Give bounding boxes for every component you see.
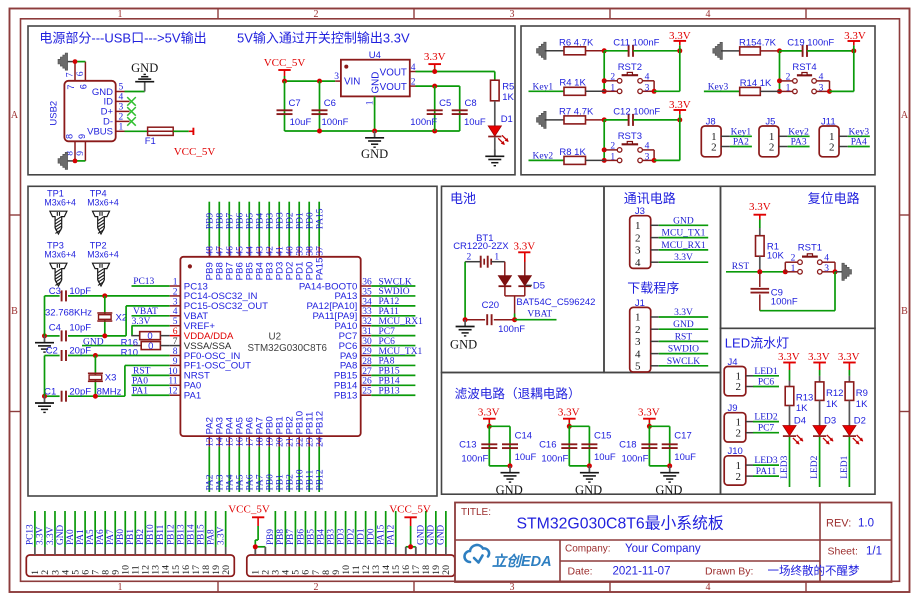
wire/net PD2 top: [288, 202, 290, 247]
wire C18 bottom: [649, 465, 669, 467]
mcu pin 6 VDDA/DDA: [170, 335, 181, 337]
svg-text:26: 26: [362, 377, 372, 387]
no-connect pin3 D+: [125, 110, 130, 112]
svg-text:GND: GND: [427, 525, 437, 545]
junction C17 bottom: [667, 463, 672, 468]
svg-text:100nF: 100nF: [771, 297, 798, 308]
chassis ground reset: [835, 271, 843, 273]
net label PA3: [788, 146, 810, 148]
net label PA5 P1: [94, 511, 96, 547]
svg-text:PD2: PD2: [286, 212, 296, 229]
svg-text:PB5: PB5: [306, 529, 316, 545]
mcu pin 19 PB0: [268, 436, 270, 447]
svg-text:3: 3: [173, 297, 178, 307]
svg-text:C15: C15: [594, 431, 611, 442]
svg-text:3.3V: 3.3V: [46, 526, 56, 545]
net label GND P2: [445, 511, 447, 547]
net label LED2: [753, 421, 779, 423]
net label MCU_TX1: [659, 237, 709, 239]
USB2 pin 4 ID: [116, 100, 125, 102]
svg-text:PB13: PB13: [379, 387, 400, 397]
junction C1 left: [42, 394, 47, 399]
svg-text:A: A: [901, 110, 909, 121]
svg-text:STM32G030C8T6: STM32G030C8T6: [248, 343, 328, 354]
svg-text:PA15: PA15: [315, 258, 326, 281]
svg-text:41: 41: [276, 246, 286, 256]
svg-text:R154.7K: R154.7K: [739, 38, 777, 49]
mcu pin 3 PC15-OSC32_OUT: [170, 305, 181, 307]
svg-text:U4: U4: [369, 50, 381, 61]
svg-text:3.3V: 3.3V: [674, 253, 693, 263]
net label MCU_RX1: [659, 249, 709, 251]
wire gnd rail: [285, 130, 460, 132]
svg-text:4: 4: [645, 72, 650, 82]
svg-text:14: 14: [216, 437, 226, 447]
wire button to rail RST3: [654, 159, 680, 161]
capacitor C16: [568, 426, 570, 466]
svg-text:6: 6: [78, 84, 88, 89]
svg-text:42: 42: [266, 246, 276, 256]
svg-text:VBAT: VBAT: [527, 309, 552, 319]
svg-text:34: 34: [362, 297, 372, 307]
net label PC6: [371, 345, 415, 347]
net label LED1 wire: [848, 437, 850, 487]
net label 3.3V P1: [44, 511, 46, 547]
fuse F1: [148, 127, 174, 135]
junction P2 pin1: [253, 544, 258, 549]
capacitor C8: [459, 86, 461, 131]
svg-text:M3x6+4: M3x6+4: [44, 198, 76, 208]
svg-text:D5: D5: [533, 281, 545, 292]
wire/net PA4 bottom: [228, 447, 230, 492]
svg-text:20: 20: [276, 437, 286, 447]
mcu U2 body: [180, 257, 360, 436]
svg-text:40: 40: [286, 246, 296, 256]
svg-text:C2: C2: [46, 345, 58, 356]
mcu pin1 mark: [188, 264, 192, 268]
svg-text:16: 16: [236, 437, 246, 447]
svg-text:3: 3: [645, 83, 650, 93]
svg-text:43: 43: [256, 246, 266, 256]
svg-text:PA6: PA6: [246, 474, 256, 490]
net label PB6 P2: [304, 511, 306, 547]
svg-text:9: 9: [173, 357, 178, 367]
net label PC13 P1: [34, 511, 36, 547]
svg-text:MCU_RX1: MCU_RX1: [379, 317, 424, 327]
svg-text:100nF: 100nF: [322, 117, 349, 128]
net label PA12: [371, 305, 415, 307]
net label PA12 P2: [395, 511, 397, 547]
section box filter: [442, 373, 721, 495]
junction RST3 pin1: [602, 158, 607, 163]
svg-text:PB14: PB14: [379, 377, 400, 387]
svg-text:VCC_5V: VCC_5V: [264, 57, 306, 69]
mcu pin 44 PB5: [248, 246, 250, 256]
junction C14 bottom: [508, 463, 513, 468]
junction RST3 pin3: [652, 158, 657, 163]
P1 pin 2 3.3V: [44, 547, 46, 555]
P2 pin 1: [254, 547, 256, 555]
svg-text:48: 48: [206, 246, 216, 256]
net label LED3: [753, 464, 779, 466]
svg-text:电池: 电池: [450, 191, 476, 206]
net label SWCLK: [659, 365, 709, 367]
svg-text:8MHz: 8MHz: [97, 387, 122, 398]
svg-text:1: 1: [118, 9, 123, 20]
svg-text:SWDIO: SWDIO: [668, 345, 699, 355]
mcu pin 34 PA12[PA10]: [361, 305, 372, 307]
P1 pin 18 PB15: [205, 547, 207, 555]
svg-text:PB11: PB11: [156, 524, 166, 545]
svg-text:PB6: PB6: [236, 213, 246, 230]
net label PB15: [371, 374, 415, 376]
junction C12: [677, 117, 682, 122]
svg-text:21: 21: [286, 437, 296, 447]
svg-text:GND: GND: [655, 483, 682, 497]
mcu pin 27 PB15: [361, 374, 372, 376]
mcu pin 23 PB11: [308, 436, 310, 447]
svg-text:3.3V: 3.3V: [513, 241, 535, 253]
net label PD3 P2: [345, 511, 347, 547]
svg-text:1: 1: [173, 277, 178, 287]
svg-text:PA5: PA5: [86, 529, 96, 545]
svg-text:PA8: PA8: [206, 529, 216, 545]
P2 pin 11: [355, 547, 357, 555]
net label PB9 P2: [274, 511, 276, 547]
resistor R5: [494, 72, 496, 81]
svg-text:PA7: PA7: [106, 529, 116, 545]
svg-text:J10: J10: [728, 446, 743, 457]
svg-text:6: 6: [76, 71, 86, 76]
svg-text:10pF: 10pF: [69, 323, 91, 334]
svg-text:10uF: 10uF: [464, 117, 486, 128]
wire/net PA6 bottom: [248, 447, 250, 492]
section box MCU: [28, 186, 437, 496]
USB2 pin 9: [84, 141, 86, 161]
svg-text:PB15: PB15: [379, 367, 400, 377]
svg-text:3.3V: 3.3V: [844, 30, 866, 42]
chassis ground bottom: [58, 152, 68, 169]
svg-text:PB3: PB3: [326, 529, 336, 545]
svg-text:3.3V: 3.3V: [638, 406, 660, 418]
USB2 pin 8: [74, 141, 76, 161]
svg-text:Your Company: Your Company: [625, 543, 701, 555]
svg-text:1: 1: [610, 152, 615, 162]
wire P2 pin16-17: [406, 546, 416, 548]
connector USB2 body: [64, 81, 115, 142]
svg-text:一场终散的不醒梦: 一场终散的不醒梦: [768, 564, 860, 578]
svg-text:GND: GND: [673, 216, 694, 226]
wire C16 bottom: [569, 465, 589, 467]
net label LED3 wire: [789, 437, 791, 487]
USB2 pin 3 D+: [116, 110, 125, 112]
svg-text:RST4: RST4: [792, 62, 816, 73]
wire key column RST3: [603, 120, 605, 160]
svg-text:5: 5: [119, 83, 124, 93]
mcu pin 36 PA14-BOOT0: [361, 285, 372, 287]
svg-text:D4: D4: [794, 416, 806, 427]
P2 pin 14: [385, 547, 387, 555]
svg-text:PB9: PB9: [266, 529, 276, 545]
svg-text:Drawn By:: Drawn By:: [705, 566, 753, 578]
svg-text:45: 45: [236, 246, 246, 256]
junction c5 bottom: [432, 129, 437, 134]
svg-text:4: 4: [706, 582, 711, 593]
svg-text:12: 12: [168, 387, 178, 397]
section box power/USB: [28, 26, 515, 175]
net label MCU_RX1: [371, 325, 415, 327]
svg-text:C6: C6: [324, 98, 336, 109]
mcu pin 13 PA2: [208, 436, 210, 447]
svg-text:GND: GND: [56, 525, 66, 545]
svg-text:17: 17: [246, 437, 256, 447]
svg-text:3.3V: 3.3V: [424, 51, 446, 63]
junction C1/X3: [93, 394, 98, 399]
section box battery: [442, 186, 605, 372]
svg-text:10uF: 10uF: [674, 452, 696, 463]
svg-text:4: 4: [645, 142, 650, 152]
net label GND P2: [425, 511, 427, 547]
wire/net PB11 bottom: [308, 447, 310, 492]
capacitor C6: [319, 81, 321, 131]
svg-text:MCU_TX1: MCU_TX1: [662, 229, 706, 239]
junction C4/X2: [102, 333, 107, 338]
P2 pin 4: [284, 547, 286, 555]
led D4: [789, 406, 791, 426]
P1 pin 5 PA0: [74, 547, 76, 555]
svg-text:1K: 1K: [502, 92, 514, 103]
net label PC6: [753, 386, 779, 388]
svg-text:19: 19: [266, 437, 276, 447]
wire/net PA3 bottom: [218, 447, 220, 492]
svg-text:PA0: PA0: [66, 529, 76, 545]
svg-text:PB11: PB11: [306, 469, 316, 490]
net label SWDIO: [371, 295, 415, 297]
net label PA8 P1: [215, 511, 217, 547]
junction RST2 pin2: [602, 78, 607, 83]
svg-text:10K: 10K: [767, 251, 785, 262]
svg-text:33: 33: [362, 307, 372, 317]
svg-text:15: 15: [226, 437, 236, 447]
svg-text:R10: R10: [121, 348, 138, 359]
svg-text:3: 3: [824, 264, 829, 274]
svg-text:Company:: Company:: [565, 544, 611, 555]
junction RST4 pin1: [777, 89, 782, 94]
net label PB5 P2: [314, 511, 316, 547]
svg-text:C4: C4: [49, 323, 61, 334]
svg-text:PD2: PD2: [346, 528, 356, 545]
net label PA15 P2: [385, 511, 387, 547]
wire/net PB10 bottom: [298, 447, 300, 492]
net label PB15 P1: [205, 511, 207, 547]
wire pin3 osc32_out: [126, 305, 170, 307]
svg-text:1: 1: [635, 312, 641, 324]
resistor R14: [740, 87, 761, 95]
svg-text:1: 1: [610, 83, 615, 93]
svg-text:PB7: PB7: [286, 529, 296, 545]
svg-text:C19 100nF: C19 100nF: [787, 38, 834, 49]
P1 pin 4 GND: [64, 547, 66, 555]
svg-text:REV:: REV:: [826, 518, 851, 530]
svg-text:GND: GND: [496, 483, 523, 497]
svg-text:PA12: PA12: [379, 297, 400, 307]
net label PB4 P2: [325, 511, 327, 547]
svg-text:SWDIO: SWDIO: [379, 287, 410, 297]
svg-text:2: 2: [635, 324, 641, 336]
svg-text:PB3: PB3: [266, 213, 276, 230]
svg-text:PB7: PB7: [226, 213, 236, 230]
frame row ticks: [10, 214, 21, 216]
mcu pin 29 PA9: [361, 355, 372, 357]
P2 pin 16: [405, 547, 407, 555]
U4 pin 3 VIN: [335, 80, 341, 82]
net label PA7 P1: [114, 511, 116, 547]
svg-text:PC7: PC7: [379, 327, 396, 337]
wire/net PB1 bottom: [278, 447, 280, 492]
wire/net PA15 top: [318, 202, 320, 247]
connector J11: [819, 126, 839, 157]
svg-text:CR1220-2ZX: CR1220-2ZX: [453, 241, 509, 252]
net label RST: [659, 340, 709, 342]
ground symbol regulator: [374, 131, 376, 138]
junction RST2 pin1: [602, 89, 607, 94]
mcu pin 42 PB3: [268, 246, 270, 256]
svg-text:C16: C16: [539, 440, 556, 451]
svg-text:R9: R9: [856, 388, 868, 399]
svg-text:PA3: PA3: [216, 474, 226, 490]
mcu pin 46 PB7: [228, 246, 230, 256]
net label PA11: [371, 315, 415, 317]
svg-text:2: 2: [711, 141, 717, 153]
svg-text:PA11: PA11: [379, 307, 400, 317]
svg-text:10uF: 10uF: [290, 117, 312, 128]
P2 pin 12: [365, 547, 367, 555]
net label SWDIO: [659, 353, 709, 355]
junction C16 top: [567, 424, 572, 429]
ground symbol battery: [464, 320, 466, 327]
wire vout4: [416, 71, 495, 73]
svg-text:STM32G030C8T6最小系统板: STM32G030C8T6最小系统板: [517, 515, 724, 533]
svg-text:RST: RST: [675, 332, 693, 342]
junction RST3 pin2: [602, 147, 607, 152]
svg-text:R13: R13: [796, 392, 813, 403]
P1 pin 16 PB13: [185, 547, 187, 555]
junction c5 top: [432, 84, 437, 89]
mcu pin 11 PA0: [170, 384, 181, 386]
svg-text:J5: J5: [765, 117, 775, 128]
P1 pin 20 3.3V: [225, 547, 227, 555]
connector J8: [701, 126, 721, 157]
wire pin9 osc_out: [125, 364, 170, 366]
svg-text:D2: D2: [854, 416, 866, 427]
net label PB2 P1: [144, 511, 146, 547]
svg-text:11: 11: [168, 377, 177, 387]
net label Key1: [730, 135, 752, 137]
svg-text:F1: F1: [145, 136, 156, 147]
junction RST4 pin2: [777, 78, 782, 83]
svg-text:PD3: PD3: [276, 212, 286, 229]
chassis ground R15: [713, 42, 723, 59]
net label PB12 P1: [174, 511, 176, 547]
svg-text:2: 2: [119, 113, 124, 123]
ground symbol D1: [494, 137, 496, 156]
svg-text:1K: 1K: [826, 399, 838, 410]
battery BT1 symbol: [480, 256, 482, 268]
svg-text:31: 31: [362, 327, 372, 337]
svg-text:C18: C18: [619, 440, 636, 451]
svg-text:PA12: PA12: [387, 524, 397, 545]
svg-text:PD1: PD1: [296, 212, 306, 229]
net label PB8 P2: [284, 511, 286, 547]
svg-text:PB12: PB12: [166, 524, 176, 545]
svg-text:GND: GND: [437, 525, 447, 545]
net label MCU_TX1: [371, 355, 415, 357]
svg-text:4: 4: [173, 307, 178, 317]
svg-text:32.768KHz: 32.768KHz: [45, 308, 92, 319]
mcu pin 15 PA4: [228, 436, 230, 447]
svg-text:100nF: 100nF: [410, 117, 437, 128]
USB2 pin 2 D-: [116, 120, 125, 122]
svg-text:1/1: 1/1: [866, 546, 882, 558]
svg-text:37: 37: [316, 246, 326, 256]
svg-text:7: 7: [173, 337, 178, 347]
svg-text:22: 22: [296, 437, 306, 447]
svg-text:3: 3: [334, 72, 339, 82]
svg-text:滤波电路（退耦电路）: 滤波电路（退耦电路）: [455, 386, 581, 401]
wire/net PA5 bottom: [238, 447, 240, 492]
mcu pin 31 PC7: [361, 335, 372, 337]
wire GND pin5: [125, 91, 145, 93]
wire/net PB0 bottom: [268, 447, 270, 492]
mcu pin 28 PA8: [361, 364, 372, 366]
capacitor C18: [648, 426, 650, 466]
mcu pin 8 PF0-OSC_IN: [170, 355, 181, 357]
svg-text:MCU_RX1: MCU_RX1: [661, 241, 706, 251]
net label VBAT: [515, 319, 557, 321]
junction RST4 pin3: [827, 89, 832, 94]
P1 pin 3 3.3V: [54, 547, 56, 555]
svg-text:LED3: LED3: [780, 455, 790, 478]
svg-text:2: 2: [466, 252, 471, 262]
svg-text:PB15: PB15: [196, 524, 206, 545]
led D2: [848, 400, 850, 425]
svg-text:PB6: PB6: [296, 529, 306, 545]
mcu pin 20 PB1: [278, 436, 280, 447]
junction c6 top: [317, 79, 322, 84]
svg-text:U2: U2: [269, 332, 282, 343]
svg-text:PA15: PA15: [376, 524, 386, 545]
wire vout2: [416, 85, 460, 87]
svg-text:C20: C20: [482, 300, 499, 311]
capacitor C19: [780, 50, 803, 52]
svg-text:100nF: 100nF: [621, 453, 648, 464]
mcu pin 25 PB13: [361, 394, 372, 396]
capacitor C2: [45, 355, 60, 357]
crystal X3: [94, 356, 96, 397]
svg-text:GND: GND: [450, 337, 477, 351]
svg-text:20: 20: [221, 565, 232, 575]
junction R7: [602, 117, 607, 122]
net label PA4: [848, 146, 870, 148]
svg-text:B: B: [901, 306, 908, 317]
junction R6: [602, 48, 607, 53]
net label LED2 wire: [819, 437, 821, 487]
svg-text:3.3V: 3.3V: [808, 351, 830, 363]
svg-text:PA7: PA7: [256, 474, 266, 490]
resistor R9: [848, 376, 850, 382]
ground symbol C14: [509, 466, 511, 473]
svg-text:VCC_5V: VCC_5V: [174, 146, 216, 158]
